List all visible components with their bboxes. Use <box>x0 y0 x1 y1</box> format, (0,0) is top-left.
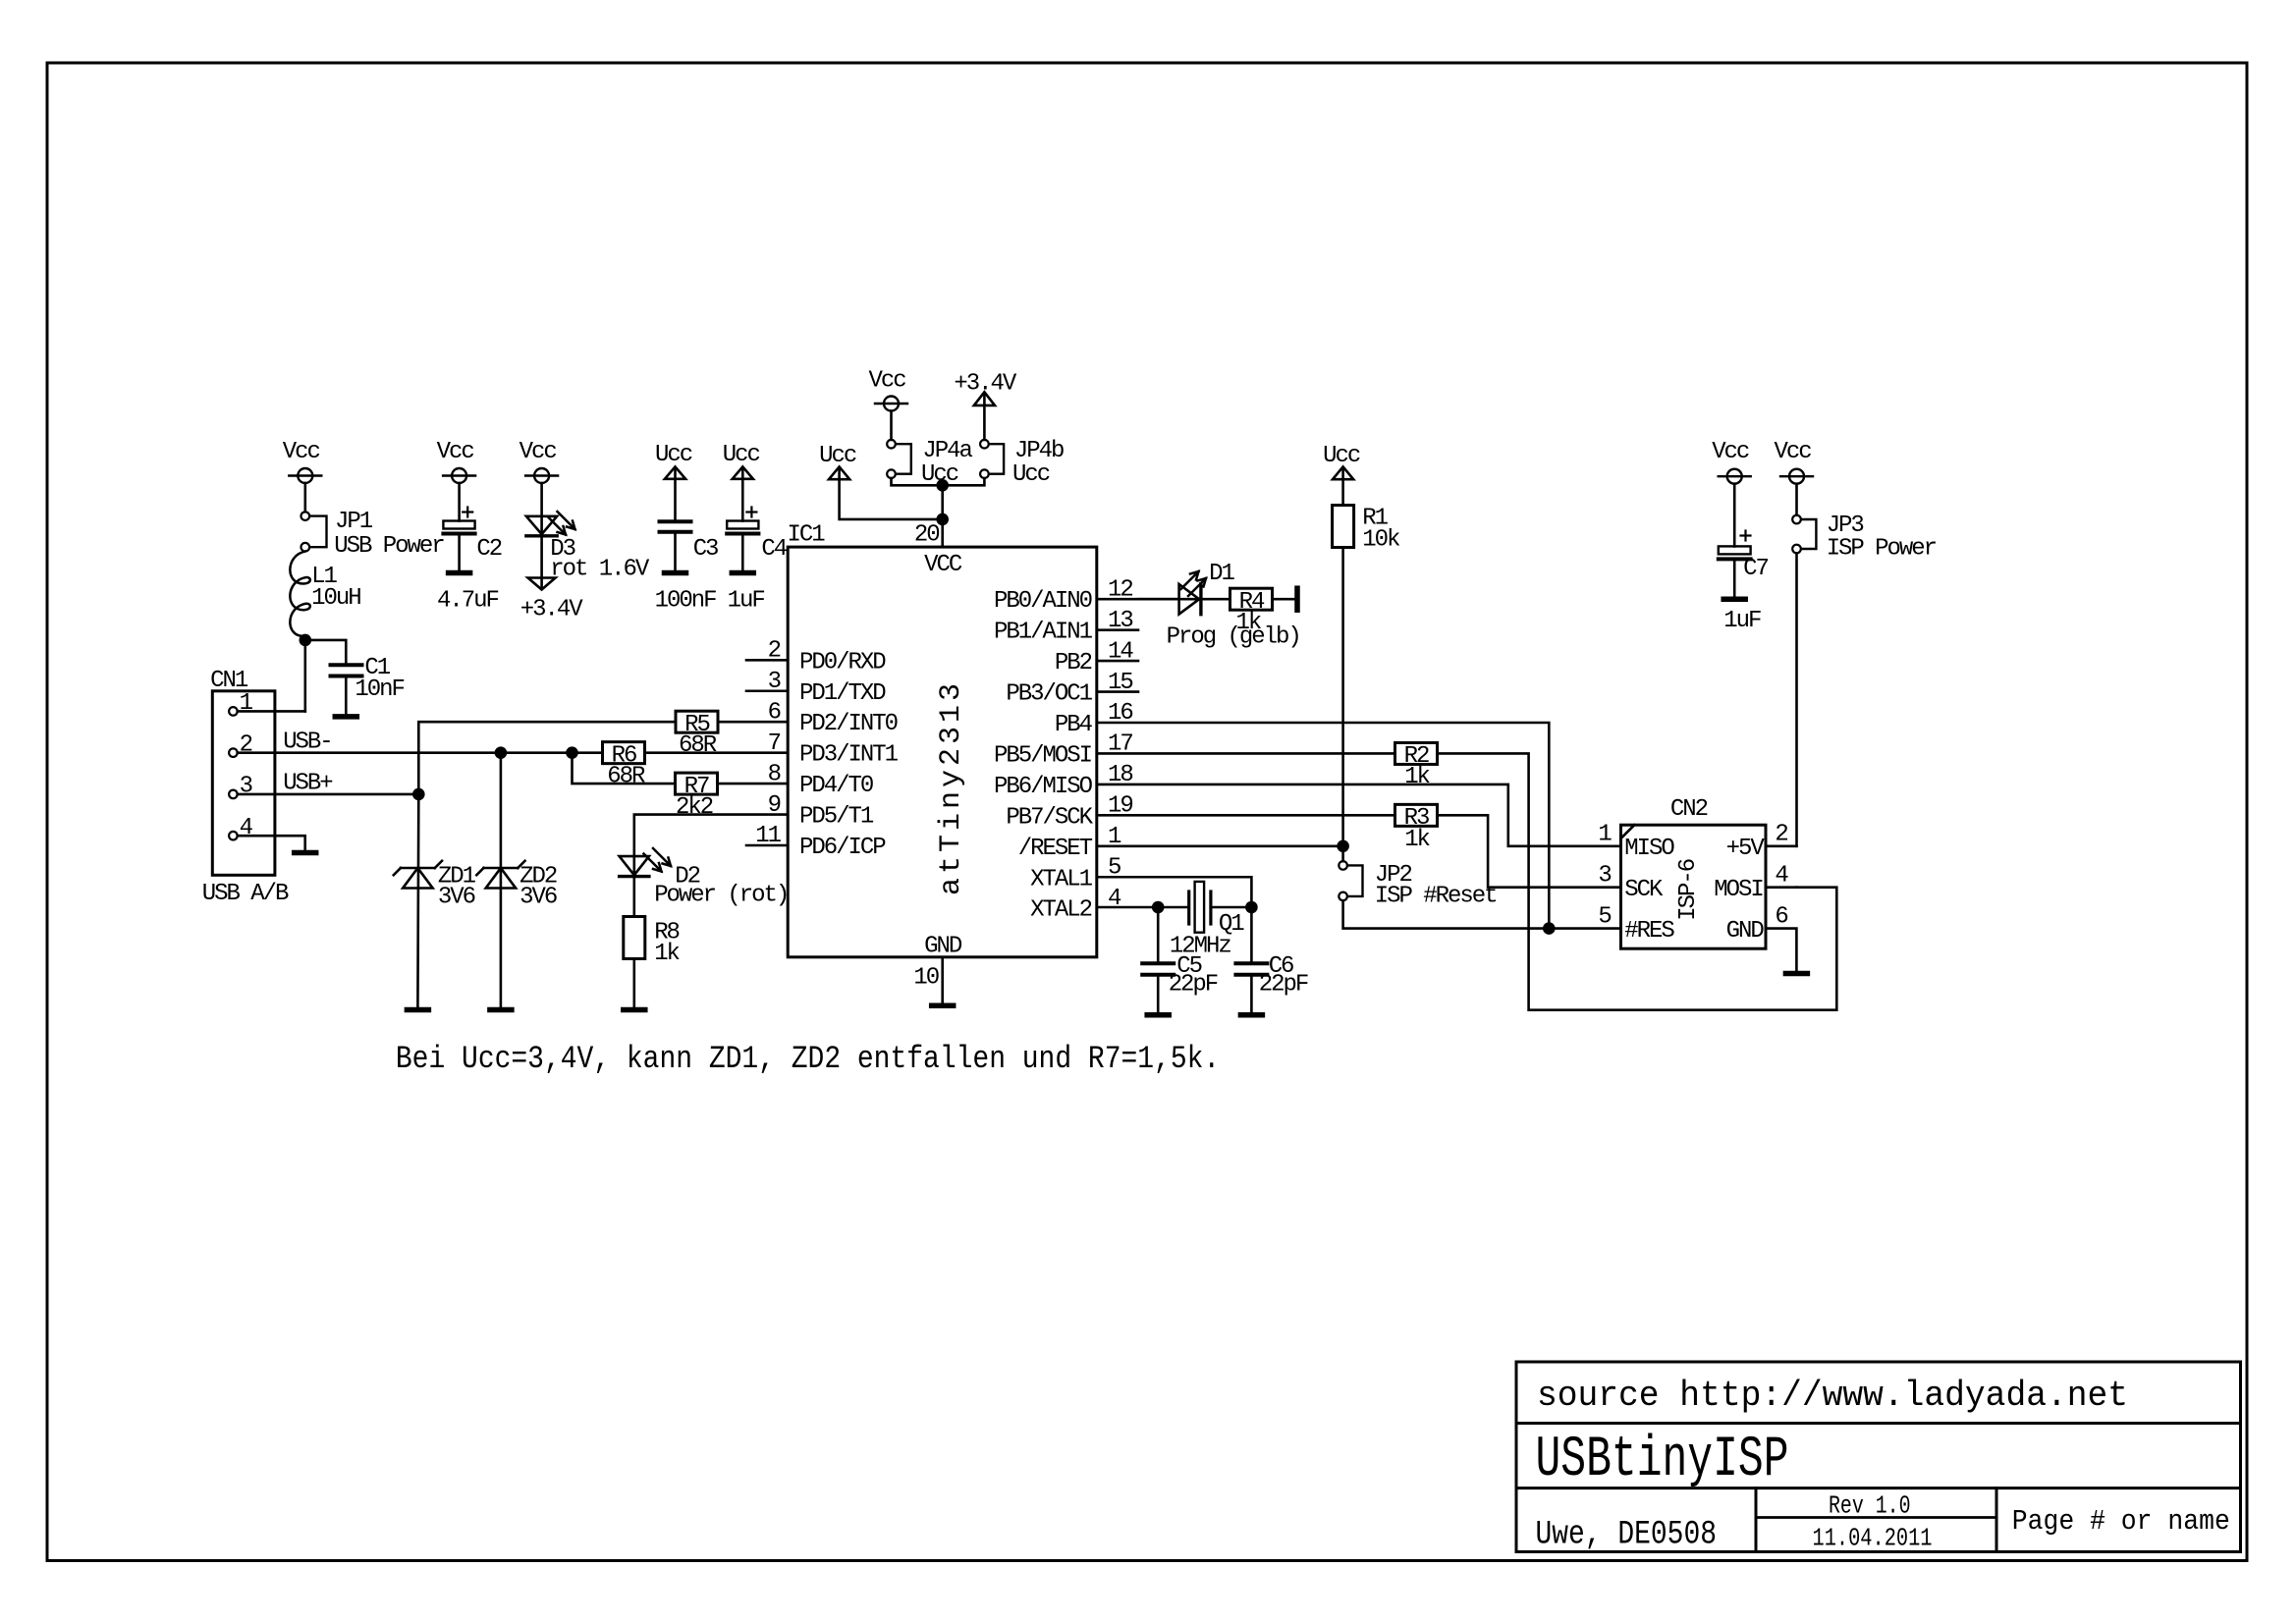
pin 19 PB7/SCK wire to R3 <box>1006 793 1394 832</box>
svg-text:Vcc: Vcc <box>283 439 320 465</box>
svg-text:1: 1 <box>1108 824 1121 850</box>
pin 5 #RES (CN2) <box>1598 903 1674 945</box>
title block frame <box>1516 1362 2241 1552</box>
wire +3.4V to JP4b <box>983 394 986 440</box>
svg-text:C3: C3 <box>693 536 718 563</box>
ground (C7) <box>1723 597 1745 603</box>
jumper JP3 <box>1792 513 1936 563</box>
wire R5 to IC pin 6 <box>718 721 788 724</box>
svg-text:D1: D1 <box>1209 561 1234 587</box>
svg-text:1: 1 <box>1598 822 1612 848</box>
LED D1 <box>1138 561 1300 651</box>
crystal Q1 <box>1170 882 1252 960</box>
svg-text:1k: 1k <box>1404 764 1430 790</box>
svg-text:18: 18 <box>1108 762 1132 788</box>
wire JP4a/JP4b pads to VCC node <box>892 478 985 485</box>
svg-text:5: 5 <box>1108 855 1121 882</box>
pin 1 (CN1) <box>229 690 305 717</box>
pin 8 PD4/T0 <box>768 761 873 799</box>
svg-text:USB+: USB+ <box>283 771 333 797</box>
svg-text:PB6/MISO: PB6/MISO <box>994 774 1093 800</box>
ground (C2) <box>449 570 470 576</box>
svg-text:+3.4V: +3.4V <box>520 597 583 623</box>
wire junction down to CN1 pin 1 <box>303 640 306 712</box>
svg-text:CN2: CN2 <box>1670 796 1708 823</box>
node VCC net junction <box>936 514 949 526</box>
svg-text:6: 6 <box>1775 903 1787 930</box>
svg-text:IC1: IC1 <box>788 522 826 549</box>
svg-text:Ucc: Ucc <box>655 442 692 468</box>
svg-text:USB-: USB- <box>283 730 332 756</box>
ground (C3) <box>665 570 686 576</box>
svg-text:PB4: PB4 <box>1055 712 1093 738</box>
svg-text:ISP #Reset: ISP #Reset <box>1375 884 1497 910</box>
capacitor C7 <box>1719 484 1769 634</box>
svg-text:source http://www.ladyada.net: source http://www.ladyada.net <box>1537 1376 2128 1416</box>
supply Vcc (above JP4a) <box>869 368 908 411</box>
pin 10 GND <box>913 957 942 1003</box>
svg-text:rot 1.6V: rot 1.6V <box>550 557 650 583</box>
capacitor C5 <box>1142 907 1218 1012</box>
pin 2 (CN1) + wire USB- <box>229 730 602 759</box>
resistor R6 <box>603 742 646 790</box>
svg-text:2: 2 <box>240 731 252 758</box>
svg-text:Uwe, DE0508: Uwe, DE0508 <box>1536 1517 1718 1554</box>
svg-text:PB0/AIN0: PB0/AIN0 <box>994 588 1092 615</box>
svg-text:Vcc: Vcc <box>437 439 474 465</box>
svg-text:C4: C4 <box>761 536 787 563</box>
svg-text:14: 14 <box>1108 638 1133 665</box>
ground (C5) <box>1147 1012 1169 1018</box>
LED D3 <box>526 483 650 588</box>
svg-text:100nF: 100nF <box>655 588 716 615</box>
svg-text:10uH: 10uH <box>311 585 360 612</box>
LED D2 <box>620 848 789 917</box>
ground (CN1 pin4) <box>295 850 316 856</box>
ground (ZD1) <box>407 1007 428 1013</box>
connector CN2 ISP-6 <box>1621 796 1767 948</box>
supply Vcc (above D3) <box>519 439 559 483</box>
svg-text:10k: 10k <box>1362 527 1400 554</box>
node PB4/#RES junction <box>1543 922 1556 935</box>
svg-text:10: 10 <box>913 964 938 991</box>
svg-text:PB7/SCK: PB7/SCK <box>1006 804 1093 831</box>
ground (C1) <box>335 714 356 720</box>
wire junction to C1 <box>305 640 347 663</box>
svg-text:Ucc: Ucc <box>723 442 760 468</box>
svg-text:8: 8 <box>768 761 781 787</box>
svg-text:6: 6 <box>768 699 781 726</box>
svg-text:PD6/ICP: PD6/ICP <box>799 835 886 861</box>
ground (C4) <box>732 570 753 576</box>
pin 17 PB5/MOSI wire to R2 <box>994 731 1394 770</box>
pin 18 PB6/MISO wire to CN2 MISO <box>994 762 1620 846</box>
resistor R5 <box>676 711 718 759</box>
wire junction down to R7 <box>573 753 676 784</box>
jumper JP2 <box>1339 861 1496 909</box>
pin 20 VCC <box>914 485 943 548</box>
svg-text:GND: GND <box>1726 918 1765 945</box>
wire Ucc arrow to VCC node <box>840 468 943 519</box>
svg-text:MOSI: MOSI <box>1714 877 1763 903</box>
supply Ucc (above R1) <box>1323 443 1360 479</box>
svg-text:1k: 1k <box>654 941 680 967</box>
svg-text:PB2: PB2 <box>1055 650 1092 676</box>
svg-text:1uF: 1uF <box>728 588 765 615</box>
svg-text:Ucc: Ucc <box>819 443 856 469</box>
svg-text:2k2: 2k2 <box>676 794 713 821</box>
svg-text:3V6: 3V6 <box>438 885 475 911</box>
wire R6 to IC pin 7 <box>645 751 789 754</box>
pin 12 PB0/AIN0 <box>994 576 1179 615</box>
svg-text:ISP Power: ISP Power <box>1827 536 1937 563</box>
svg-text:15: 15 <box>1108 670 1132 696</box>
svg-text:68R: 68R <box>679 732 717 759</box>
resistor R2 <box>1395 742 1438 790</box>
svg-text:MISO: MISO <box>1624 836 1674 862</box>
inductor L1 <box>290 552 360 642</box>
svg-text:3: 3 <box>768 669 781 695</box>
pin 3 PD1/TXD <box>746 669 886 707</box>
svg-text:USBtinyISP: USBtinyISP <box>1536 1429 1789 1492</box>
pin 7 PD3/INT1 <box>768 730 899 769</box>
svg-text:12: 12 <box>1108 576 1132 603</box>
resistor R1 <box>1333 468 1400 846</box>
pin 14 PB2 <box>1055 638 1138 676</box>
node USB- / R6-R7 junction <box>566 746 578 759</box>
svg-text:XTAL2: XTAL2 <box>1030 897 1091 924</box>
ground (ZD2) <box>490 1007 512 1013</box>
wire Vcc to JP1 <box>303 483 306 512</box>
svg-text:2: 2 <box>768 638 781 665</box>
resistor R8 <box>624 917 681 1008</box>
pin 4 XTAL2 wire <box>1030 886 1189 924</box>
ground (IC pin 10) <box>932 1003 954 1009</box>
pin 4 MOSI (CN2) <box>1714 862 1796 903</box>
svg-text:20: 20 <box>914 522 939 549</box>
supply Vcc (above C7) <box>1712 439 1751 484</box>
pin 16 PB4 + wire to CN2 #RES <box>1055 700 1549 928</box>
svg-text:2: 2 <box>1775 822 1787 848</box>
svg-text:PD0/RXD: PD0/RXD <box>799 649 886 676</box>
ground (R4, rotated) <box>1294 588 1300 610</box>
pin 15 PB3/OC1 <box>1006 670 1138 708</box>
svg-text:7: 7 <box>768 730 781 757</box>
svg-text:17: 17 <box>1108 731 1132 758</box>
pin 5 XTAL1 wire <box>1030 855 1251 908</box>
svg-text:JP4a: JP4a <box>922 438 972 464</box>
svg-text:Vcc: Vcc <box>519 439 557 465</box>
svg-text:C7: C7 <box>1743 556 1768 582</box>
ground (C6) <box>1240 1012 1262 1018</box>
pin 4 (CN1) + wire to ground <box>229 815 305 851</box>
capacitor C3 <box>655 468 718 615</box>
zener diode ZD1 <box>394 794 476 1007</box>
node USB+ junction <box>412 788 425 801</box>
svg-text:1k: 1k <box>1236 610 1262 636</box>
svg-text:Prog (gelb): Prog (gelb) <box>1167 624 1300 651</box>
supply Ucc (above C3) <box>655 442 692 479</box>
svg-text:4: 4 <box>1108 886 1121 912</box>
svg-text:PD2/INT0: PD2/INT0 <box>799 711 898 737</box>
svg-text:SCK: SCK <box>1624 877 1664 903</box>
node USB- / ZD2 junction <box>495 746 508 759</box>
svg-text:Bei Ucc=3,4V, kann ZD1, ZD2 en: Bei Ucc=3,4V, kann ZD1, ZD2 entfallen un… <box>396 1041 1220 1077</box>
zener diode ZD2 <box>476 753 557 1007</box>
capacitor C1 <box>331 655 405 715</box>
pin 2 +5V (CN2) wire to JP3 <box>1726 822 1797 863</box>
svg-text:+5V: +5V <box>1726 836 1766 862</box>
svg-text:1: 1 <box>240 690 253 717</box>
svg-text:Vcc: Vcc <box>1712 439 1749 465</box>
pin 13 PB1/AIN1 <box>994 608 1138 646</box>
wire junction to JP2 <box>1341 846 1344 861</box>
svg-text:#RES: #RES <box>1624 918 1674 945</box>
svg-text:Power (rot): Power (rot) <box>654 882 788 908</box>
capacitor C2 <box>437 483 502 615</box>
svg-text:4: 4 <box>1775 862 1788 889</box>
svg-text:Ucc: Ucc <box>1012 461 1050 488</box>
svg-text:10nF: 10nF <box>355 676 404 703</box>
resistor R4 <box>1230 588 1295 636</box>
svg-text:Vcc: Vcc <box>869 368 906 395</box>
pin 3 (CN1) + wire USB+ <box>229 771 418 800</box>
svg-text:Vcc: Vcc <box>1775 439 1812 465</box>
svg-text:68R: 68R <box>607 764 645 790</box>
supply Ucc (above C4) <box>723 442 760 479</box>
svg-text:3: 3 <box>240 774 252 800</box>
pin 1 /RESET wire to R1/JP2 <box>1018 824 1343 862</box>
svg-text:4: 4 <box>240 815 253 841</box>
jumper JP4b <box>980 438 1064 488</box>
wire IC pin 9 to D2 <box>634 815 788 857</box>
svg-text:3V6: 3V6 <box>519 885 557 911</box>
wire JP3 to CN2 +5V <box>1795 553 1798 846</box>
svg-text:USB A/B: USB A/B <box>202 881 289 907</box>
svg-text:3: 3 <box>1598 862 1611 889</box>
wire R2 to CN2 MOSI <box>1438 753 1837 1009</box>
node junction L1/C1/CN1 <box>300 634 312 647</box>
capacitor C6 <box>1235 907 1308 1012</box>
pin 6 GND (CN2) <box>1726 903 1797 971</box>
svg-text:GND: GND <box>924 934 962 960</box>
svg-text:PD3/INT1: PD3/INT1 <box>799 742 899 769</box>
pin 6 PD2/INT0 <box>768 699 898 737</box>
jumper JP4a <box>887 438 972 488</box>
pin 2 PD0/RXD <box>746 638 886 676</box>
supply Vcc (above C2) <box>437 439 476 483</box>
wire JP2 to CN2 #RES <box>1343 900 1621 928</box>
wire Vcc to JP4a <box>890 411 893 440</box>
svg-text:9: 9 <box>768 792 781 819</box>
connector CN1 <box>202 668 289 907</box>
pin 1 MISO (CN2) <box>1598 822 1674 863</box>
pin 9 PD5/T1 <box>768 792 874 831</box>
svg-text:PB1/AIN1: PB1/AIN1 <box>994 620 1093 646</box>
svg-text:4.7uF: 4.7uF <box>437 588 498 615</box>
svg-text:VCC: VCC <box>924 552 962 578</box>
supply +3.4V (above JP4b) <box>954 371 1016 405</box>
svg-text:C2: C2 <box>476 536 501 563</box>
resistor R3 <box>1395 804 1438 853</box>
svg-text:/RESET: /RESET <box>1018 836 1093 862</box>
wire Vcc to JP3 <box>1795 484 1798 515</box>
node XTAL1/C6 junction <box>1245 901 1258 914</box>
IC1 atTiny2313 body <box>788 522 1097 960</box>
svg-text:5: 5 <box>1598 903 1611 930</box>
svg-text:PD1/TXD: PD1/TXD <box>799 680 886 707</box>
ground (R8) <box>624 1007 645 1013</box>
svg-text:16: 16 <box>1108 700 1132 727</box>
svg-text:Page # or name: Page # or name <box>2012 1505 2230 1538</box>
svg-text:19: 19 <box>1108 793 1132 820</box>
svg-text:11: 11 <box>755 823 781 849</box>
node /RESET junction <box>1337 840 1349 853</box>
resistor R7 <box>676 773 718 821</box>
jumper JP1 <box>301 509 445 560</box>
supply Ucc (left of JP4a) <box>819 443 856 479</box>
svg-text:11.04.2011: 11.04.2011 <box>1813 1524 1933 1553</box>
wire R3 to CN2 SCK <box>1438 815 1621 887</box>
ground (CN2 pin 6) <box>1785 971 1807 977</box>
svg-text:22pF: 22pF <box>1259 972 1308 999</box>
svg-text:JP4b: JP4b <box>1014 438 1064 464</box>
node XTAL2/C5 junction <box>1152 901 1165 914</box>
node JP4 junction <box>936 479 949 492</box>
supply Vcc (above JP3) <box>1775 439 1814 484</box>
svg-text:1uF: 1uF <box>1723 608 1761 634</box>
pin 3 SCK (CN2) <box>1598 862 1664 903</box>
pin 11 PD6/ICP <box>746 823 886 861</box>
svg-text:22pF: 22pF <box>1169 972 1218 999</box>
svg-text:Ucc: Ucc <box>1323 443 1360 469</box>
svg-text:PB5/MOSI: PB5/MOSI <box>994 743 1092 770</box>
svg-text:JP1: JP1 <box>335 509 373 535</box>
capacitor C4 <box>727 468 788 615</box>
svg-text:XTAL1: XTAL1 <box>1030 866 1092 892</box>
svg-text:PB3/OC1: PB3/OC1 <box>1006 681 1092 708</box>
svg-text:ISP-6: ISP-6 <box>1675 859 1702 920</box>
svg-text:1k: 1k <box>1404 827 1430 853</box>
wire USB+ up and to R5 <box>418 722 676 794</box>
svg-text:PD5/T1: PD5/T1 <box>799 804 874 831</box>
svg-text:USB Power: USB Power <box>334 533 444 560</box>
supply +3.4V (below D3) <box>520 578 583 623</box>
wire R7 to IC pin 8 <box>718 783 789 785</box>
svg-text:Rev 1.0: Rev 1.0 <box>1829 1491 1911 1521</box>
supply Vcc (above JP1) <box>283 439 322 483</box>
svg-text:PD4/T0: PD4/T0 <box>799 773 873 799</box>
svg-text:13: 13 <box>1108 608 1132 634</box>
